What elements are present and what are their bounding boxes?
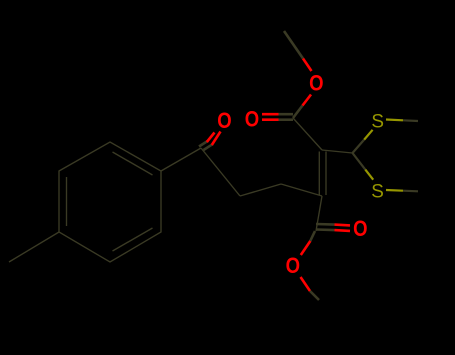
bond ester C to ester O [293, 95, 311, 119]
bond CH to upper S [353, 130, 373, 153]
lower S-CH3 bond [386, 190, 418, 191]
top ester O-CH3 bond [284, 31, 312, 71]
bottom ester O-CH3 bond [301, 277, 320, 300]
bond C3 to bottom ester carbonyl C [316, 196, 322, 231]
svg-text:O: O [309, 72, 323, 96]
svg-text:S: S [371, 111, 384, 132]
bond bottom ester C to ester O [301, 231, 315, 255]
upper S-CH3 bond [386, 120, 418, 122]
svg-text:O: O [217, 110, 231, 134]
ketone C=O double bond [199, 132, 221, 151]
bond CH2 to C3 [281, 184, 322, 196]
benzene ring outer edges [59, 142, 161, 262]
methyl on ring (para) [9, 232, 59, 262]
bond C2 to dithioacetal CH [322, 150, 353, 153]
bond CH to lower S [353, 153, 374, 180]
bottom ester C=O double bond [316, 224, 350, 231]
bond C2 to top ester carbonyl C [293, 118, 322, 150]
bond ketone C to CH2 [201, 148, 240, 196]
svg-text:S: S [371, 181, 384, 202]
top ester C=O double bond [262, 114, 293, 120]
bond CH2 to CH2 [240, 184, 281, 196]
svg-text:O: O [245, 108, 259, 132]
bond ring to ketone carbon [161, 148, 201, 171]
svg-text:O: O [286, 254, 300, 278]
C2=C3 double bond [319, 152, 326, 196]
svg-text:O: O [353, 218, 367, 242]
benzene ring inner double-bond lines [67, 152, 153, 251]
